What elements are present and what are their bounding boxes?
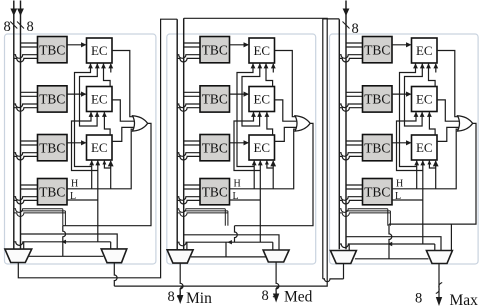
wire EC9 top to EC8 bottom jog (p5) <box>429 112 435 136</box>
wire staircase into EC7 bottom (p2) <box>405 63 423 126</box>
svg-text:EC: EC <box>91 43 108 58</box>
wire EC8 output to OR gate input 2 <box>437 100 460 121</box>
stage1 wire bus B1 to right mux (y233.5) <box>21 234 118 249</box>
svg-text:8: 8 <box>4 19 11 35</box>
wires bus to TBC5 <box>184 42 200 44</box>
TBC block TBC3 <box>38 135 68 161</box>
wire EC3 output to OR gate input 3 <box>112 127 136 141</box>
Min output arrow <box>177 295 183 304</box>
wire EC2 output to OR gate input 2 <box>112 100 135 121</box>
svg-text:EC: EC <box>416 43 433 58</box>
svg-text:Med: Med <box>284 289 313 306</box>
wire TBC8 H output to OR gate input 4 <box>230 129 297 189</box>
svg-text:8: 8 <box>27 19 34 35</box>
TBC block TBC11 <box>363 135 393 161</box>
bus A2 (8-bit) <box>176 19 178 249</box>
svg-text:TBC: TBC <box>364 184 390 199</box>
stage2 select riser down with hop onto rail <box>235 226 238 243</box>
svg-text:TBC: TBC <box>202 42 228 57</box>
bottom stub wires from buses to select riser (stage 3) <box>339 209 388 213</box>
TBC block TBC8 <box>200 179 230 205</box>
stage3 wire from select line down to Max mux <box>450 224 452 250</box>
input arrow bus B1 <box>17 9 24 16</box>
mux M2 (stage1 right) <box>101 249 127 263</box>
svg-text:EC: EC <box>253 140 270 155</box>
wire EC6 output to OR gate input 3 <box>275 127 299 141</box>
svg-text:EC: EC <box>91 140 108 155</box>
bus B1 (8-bit) <box>20 1 22 250</box>
wire EC7 output to OR gate input 1 <box>437 51 459 117</box>
wire TBC4 H riser arrow into EC3 bottom (p6) <box>110 161 112 189</box>
svg-text:EC: EC <box>253 92 270 107</box>
wire TBC8 L output <box>230 199 261 201</box>
svg-text:8: 8 <box>168 289 175 305</box>
input arrow bus B3 <box>343 9 350 16</box>
svg-text:TBC: TBC <box>39 184 65 199</box>
stage1 select riser down with hop to slant rail <box>63 226 66 257</box>
wire staircase into EC4 bottom (p1) <box>237 63 254 167</box>
wire TBC4 H output to OR gate input 4 <box>67 129 134 189</box>
wire stub arrow into EC1 bottom right (p3b) <box>110 64 112 73</box>
wire stub arrow into EC4 bottom right (p3b) <box>272 64 274 73</box>
EC block EC5 <box>249 87 275 112</box>
svg-text:TBC: TBC <box>202 140 228 155</box>
svg-text:H: H <box>396 179 403 190</box>
EC block EC4 <box>249 38 275 63</box>
wire TBC2 to EC2 with arrow <box>67 93 86 95</box>
bus width slash B1 <box>17 22 24 29</box>
wire EC1 output to OR gate input 1 <box>112 51 134 117</box>
stage1 select rail into mux slants <box>29 255 104 257</box>
wire staircase into EC1 bottom (p1) <box>75 63 92 167</box>
Max output arrow <box>436 297 442 306</box>
wires bus to TBC2 <box>21 91 38 93</box>
stage3 select: OR U3 output down and left <box>389 123 476 224</box>
stage2 select drop to slant rail with direction arrow <box>225 242 227 257</box>
input arrow bus A1 <box>10 9 17 16</box>
Max output wire with bus slash <box>438 264 440 301</box>
wire EC6 bottom arrow down to H line <box>253 160 255 189</box>
wires bus to TBC12 <box>346 184 363 186</box>
wires bus to TBC4 <box>21 184 38 186</box>
svg-text:TBC: TBC <box>39 140 65 155</box>
wire TBC6 to EC5 with arrow <box>230 93 249 95</box>
wire EC8 top to EC7 bottom jog (p3a) <box>429 63 436 87</box>
TBC block TBC12 <box>363 179 393 205</box>
bottom stub wires from buses to select riser (stage 1) <box>14 209 63 213</box>
svg-text:TBC: TBC <box>364 42 390 57</box>
wire TBC4 L output <box>67 199 98 201</box>
wire stub arrow into EC7 bottom right (p3b) <box>435 64 437 73</box>
wire TBC5 to EC4 with arrow <box>230 44 249 46</box>
bus width slash A1 <box>10 22 17 29</box>
wire TBC11 to EC9 with arrow <box>392 142 411 144</box>
wire loop stub under EC6 (p7) <box>267 160 273 168</box>
wires bus to TBC7 <box>184 140 200 142</box>
TBC block TBC1 <box>38 37 68 63</box>
svg-text:Min: Min <box>186 290 212 307</box>
wire staircase into EC5 bottom (p4) <box>234 112 260 171</box>
stage1 rail bus A1 to both muxes (y241.3) <box>14 242 111 246</box>
TBC block TBC4 <box>38 179 68 205</box>
EC block EC9 <box>412 135 438 160</box>
wire TBC9 to EC7 with arrow <box>392 44 411 46</box>
svg-text:EC: EC <box>253 43 270 58</box>
svg-text:TBC: TBC <box>39 42 65 57</box>
mux M5 (stage3 left) <box>330 251 356 264</box>
wire loop stub under EC3 (p7) <box>104 160 110 168</box>
wires bus to TBC3 <box>21 140 38 142</box>
svg-text:H: H <box>234 179 241 190</box>
TBC block TBC7 <box>200 135 230 161</box>
wire EC3 bottom arrow down to H line <box>91 160 93 189</box>
bottom stub wires from buses to select riser (stage 2) <box>177 209 225 213</box>
svg-text:TBC: TBC <box>364 140 390 155</box>
wires bus to TBC1 <box>21 42 38 44</box>
bus B3 (8-bit) <box>345 1 347 250</box>
stage 3 frame <box>330 34 479 264</box>
stage3 select rail into mux slants <box>355 258 429 260</box>
OR gate U2 <box>295 116 310 131</box>
wire EC3 bottom arrow down through L line to mux rail <box>97 160 99 242</box>
svg-text:8: 8 <box>415 291 422 307</box>
OR gate U3 <box>458 116 473 131</box>
wire TBC8 H riser arrow into EC6 bottom (p6) <box>272 161 274 189</box>
wire staircase into EC1 bottom (p2) <box>80 63 98 126</box>
wires bus to TBC10 <box>346 91 363 93</box>
EC block EC1 <box>87 38 113 63</box>
wire EC9 bottom arrow down to H line <box>416 160 418 189</box>
wire EC4 output to OR gate input 1 <box>275 51 297 117</box>
wires bus to TBC6 <box>184 91 200 93</box>
wire TBC1 to EC1 with arrow <box>67 44 86 46</box>
stage2 select: OR U2 output down and left <box>235 123 314 225</box>
stage2 select rail into mux slants <box>191 256 266 258</box>
wire EC6 bottom arrow down through L line to mux rail <box>259 160 261 242</box>
stage2 rail bus A2 to both muxes (y241.7) <box>177 242 273 246</box>
TBC block TBC5 <box>200 37 230 63</box>
wire EC2 top to EC1 bottom jog (p3a) <box>104 63 111 87</box>
wire TBC7 to EC6 with arrow <box>230 142 249 144</box>
wire TBC10 to EC8 with arrow <box>392 93 411 95</box>
stage3 rail bus A3 to both muxes (y243.5) <box>339 244 435 248</box>
wire M1 output feedback to bus A2 riser <box>18 19 177 278</box>
wire staircase into EC4 bottom (p2) <box>242 63 260 126</box>
stage3 wire bus B3 to Max mux (y236.2) <box>346 237 441 251</box>
svg-text:EC: EC <box>416 92 433 107</box>
bus B2 (8-bit) <box>183 18 185 249</box>
wire staircase into EC2 bottom (p4) <box>72 112 98 171</box>
wire TBC3 to EC3 with arrow <box>67 142 86 144</box>
svg-text:EC: EC <box>416 140 433 155</box>
Min output wire with hop and bus slash <box>180 263 183 299</box>
bus width slash B3 <box>343 22 350 29</box>
wires bus to TBC9 <box>346 42 363 44</box>
wire TBC12 L output <box>392 199 423 201</box>
EC block EC7 <box>412 38 438 63</box>
wire staircase into EC8 bottom (p4) <box>397 112 423 171</box>
svg-text:H: H <box>71 179 78 190</box>
svg-text:TBC: TBC <box>364 92 390 107</box>
svg-text:TBC: TBC <box>202 92 228 107</box>
TBC block TBC2 <box>38 86 68 112</box>
wires bus to TBC8 <box>184 184 200 186</box>
svg-text:8: 8 <box>352 21 359 37</box>
wire EC5 output to OR gate input 2 <box>275 100 298 121</box>
wire EC9 bottom arrow down through L line to mux rail <box>422 160 424 244</box>
mux M3 (Min mux) <box>167 250 193 263</box>
wire loop stub under EC9 (p7) <box>429 160 435 168</box>
TBC block TBC9 <box>363 37 393 63</box>
wire M2 output feedback to bus B2 over the top <box>114 263 117 286</box>
wire EC6 top to EC5 bottom jog (p5) <box>267 112 273 136</box>
wire M5 output feedback left with hop to bus A3 riser <box>343 264 345 279</box>
svg-text:EC: EC <box>91 92 108 107</box>
stage3 select riser down with hop to slant rail <box>389 224 392 259</box>
mux M1 (stage1 left) <box>5 249 32 262</box>
wire EC9 output to OR gate input 3 <box>437 127 461 141</box>
wire EC5 top to EC4 bottom jog (p3a) <box>266 63 273 87</box>
OR gate U1 <box>133 116 148 131</box>
EC block EC3 <box>87 135 113 160</box>
svg-text:TBC: TBC <box>202 184 228 199</box>
wires bus to TBC11 <box>346 140 363 142</box>
svg-text:TBC: TBC <box>39 92 65 107</box>
TBC block TBC10 <box>363 86 393 112</box>
EC block EC8 <box>412 87 438 112</box>
stage 2 frame <box>167 34 316 264</box>
svg-text:8: 8 <box>262 288 269 304</box>
stage1 select: OR U1 output down and left <box>63 123 151 225</box>
EC block EC2 <box>87 87 113 112</box>
wire TBC12 H riser arrow into EC9 bottom (p6) <box>435 161 437 189</box>
Med output wire with hop and bus slash <box>276 262 279 298</box>
mux M6 (Max mux) <box>426 251 452 264</box>
Med output arrow <box>273 294 279 303</box>
svg-text:Max: Max <box>450 292 479 308</box>
stage2 wire bus B2 to Med mux (y234.3) <box>184 235 279 250</box>
bus A3 (8-bit) <box>338 19 340 249</box>
wire staircase into EC7 bottom (p1) <box>400 63 417 167</box>
TBC block TBC6 <box>200 86 230 112</box>
EC block EC6 <box>249 135 275 160</box>
mux M4 (Med mux) <box>263 250 289 262</box>
stage 1 frame <box>5 34 156 264</box>
wire TBC12 H output to OR gate input 4 <box>392 129 459 189</box>
bus A1 (8-bit) <box>13 1 15 250</box>
wire EC3 top to EC2 bottom jog (p5) <box>104 112 110 136</box>
